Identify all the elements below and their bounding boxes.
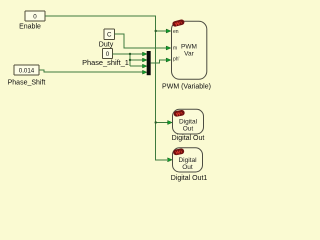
svg-text:Digital Out: Digital Out xyxy=(172,135,205,142)
arrowheads into mux inputs 1-3 xyxy=(143,52,147,68)
junction node on wire 1 xyxy=(129,53,131,55)
Digital Out1 block xyxy=(171,148,208,182)
arrowheads into en, Digital Out, Digital Out1 xyxy=(166,29,172,162)
constant source Duty (C) xyxy=(99,29,115,49)
svg-text:PWM: PWM xyxy=(181,43,197,50)
junction node at Digital Out branch xyxy=(155,121,157,123)
red badge on Digital Out xyxy=(173,110,185,118)
svg-text:Digital Out1: Digital Out1 xyxy=(171,175,208,182)
svg-text:ph': ph' xyxy=(173,57,180,63)
PWM (Variable) block xyxy=(162,21,211,90)
constant source Enable xyxy=(19,11,45,31)
red badge on Digital Out1 xyxy=(173,148,185,156)
junction node at en branch xyxy=(155,30,157,32)
svg-text:Out: Out xyxy=(182,164,193,171)
constant source Phase_shift_1 (0) xyxy=(103,49,113,59)
svg-text:Digital: Digital xyxy=(178,157,197,164)
junction node on wire 2 xyxy=(129,59,131,61)
mux bar xyxy=(147,51,151,75)
constant source Phase_Shift (0.014) xyxy=(8,65,46,87)
svg-text:0.014: 0.014 xyxy=(19,68,35,75)
canvas background xyxy=(0,0,240,210)
svg-text:Phase_shift_1: Phase_shift_1 xyxy=(82,58,129,67)
wire Duty -> m pin xyxy=(115,34,167,48)
svg-text:m: m xyxy=(173,46,177,52)
wire mux output -> ph' pin xyxy=(151,60,167,63)
svg-text:PWM (Variable): PWM (Variable) xyxy=(162,83,211,90)
wire Enable -> en pin and digital outs xyxy=(45,16,168,160)
svg-text:Out: Out xyxy=(183,126,194,133)
wires Phase_shift_1 -> mux inputs 1-3 xyxy=(113,54,143,66)
wire Phase_Shift -> mux input 4 xyxy=(39,70,143,72)
Digital Out block xyxy=(172,109,205,142)
svg-text:Duty: Duty xyxy=(99,42,114,49)
svg-text:Enable: Enable xyxy=(19,24,41,31)
svg-text:Digital: Digital xyxy=(179,118,198,125)
svg-text:0: 0 xyxy=(106,51,110,58)
svg-text:Phase_Shift: Phase_Shift xyxy=(8,80,46,87)
red badge on PWM block xyxy=(172,19,185,27)
svg-text:Var: Var xyxy=(184,51,194,58)
svg-text:0: 0 xyxy=(33,13,37,20)
svg-text:en: en xyxy=(173,29,179,35)
svg-text:C: C xyxy=(107,32,112,39)
